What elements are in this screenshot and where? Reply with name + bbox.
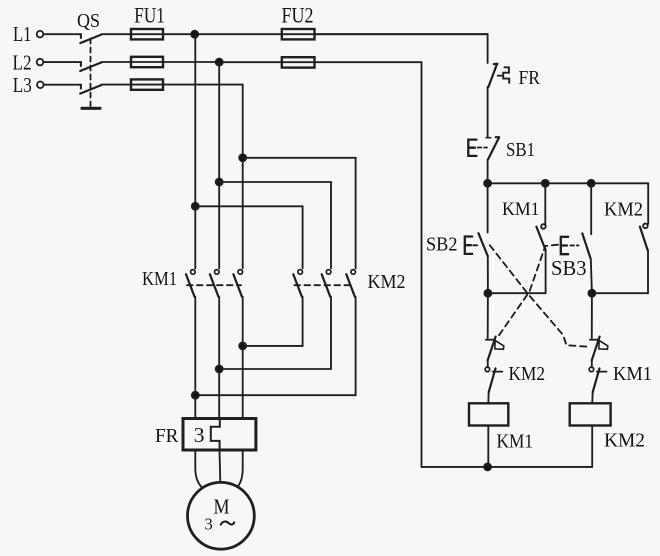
pushbutton SB2 NC contact (interlock): [590, 337, 608, 361]
wire node B horizontal: [488, 292, 546, 294]
svg-text:SB2: SB2: [426, 234, 458, 255]
contactor KM1 NC interlock contact: [589, 367, 606, 392]
svg-text:KM1: KM1: [497, 431, 534, 453]
wire phase2 vertical upper: [218, 62, 220, 268]
pushbutton SB1 (NC stop): [486, 137, 499, 159]
wire phase2 vertical lower: [218, 297, 220, 419]
wire control bus top: [488, 182, 649, 184]
svg-text:KM2: KM2: [368, 271, 406, 293]
wire bottom bus: [422, 466, 593, 468]
contactor KM2 NC interlock contact: [485, 367, 502, 392]
junction phase2 to KM2 col2: [216, 179, 223, 186]
FR contact linkage dash: [498, 75, 502, 77]
contactor KM2 main contact 1: [293, 270, 302, 297]
wire L3 terminal to QS: [44, 84, 81, 86]
svg-text:L1: L1: [13, 22, 32, 46]
svg-text:L3: L3: [13, 73, 32, 97]
pushbutton SB3 NC contact (interlock): [486, 337, 504, 361]
SB2 actuator dash: [473, 244, 477, 246]
FR heater element symbol: [211, 420, 220, 448]
wire KM2 col2 lower: [219, 297, 331, 369]
SB3 actuator E: [561, 237, 568, 254]
label tilde motor: [220, 521, 234, 525]
wire to KM2 coil: [591, 392, 594, 403]
switch QS pole 1: [80, 34, 101, 43]
wire FU2 row1 to FR contact: [315, 34, 488, 63]
node L3 terminal: [37, 82, 44, 89]
junction bottom bus: [484, 463, 491, 470]
svg-text:QS: QS: [77, 10, 100, 32]
wire phase1 vertical upper: [194, 34, 196, 268]
pushbutton SB3 (NO start rev): [582, 233, 590, 258]
wire node C horizontal: [592, 292, 648, 294]
relay contact FR (NC): [489, 64, 498, 87]
wire L2 to return branch: [219, 61, 421, 63]
wire QS to FU1 row3: [102, 84, 243, 86]
motor M circle: [188, 482, 255, 549]
wire KM2 coil to bottom bus: [591, 426, 593, 467]
wire to KM1 coil: [487, 392, 489, 403]
wire QS to FU1 row2: [102, 61, 220, 63]
wire SB1 to bus: [487, 160, 489, 184]
wire SB3 to node C: [591, 258, 592, 293]
SB1 actuator dash: [478, 147, 487, 149]
fuse FU2 element 2: [282, 57, 315, 67]
junction bus middle: [542, 180, 549, 187]
wire bus to SB3: [590, 183, 592, 234]
fuse FU2 element 1: [282, 29, 315, 39]
junction bus left: [484, 180, 491, 187]
svg-text:FR: FR: [155, 425, 179, 447]
wire KM1 coil to bottom bus: [487, 426, 489, 467]
wire phase2 branch to KM2 col2: [219, 182, 331, 268]
pushbutton SB2 (NO start fwd): [479, 233, 488, 256]
contactor KM1 aux NO (self hold): [536, 183, 545, 293]
svg-text:KM2: KM2: [604, 199, 643, 221]
junction node B: [484, 290, 491, 297]
junction phase2 top: [216, 59, 223, 66]
wire control return to FU2 row2: [421, 62, 423, 467]
junction phase1 from KM2 col3: [192, 392, 199, 399]
svg-text:3: 3: [205, 515, 213, 534]
wire QS to FU1 row1: [102, 33, 195, 35]
wire phase3 vertical upper: [242, 85, 244, 269]
wire phase1 vertical lower: [194, 297, 196, 419]
switch QS linkage bar: [82, 107, 100, 110]
wire KM2 col3 lower: [195, 297, 355, 395]
wire SB2 to node B: [487, 256, 489, 293]
svg-text:L2: L2: [13, 50, 32, 74]
svg-text:FU1: FU1: [134, 2, 165, 27]
svg-text:KM2: KM2: [509, 363, 546, 385]
KM1 main linkage dashed: [187, 284, 241, 286]
fuse FU1 element 2: [131, 57, 163, 67]
junction phase3 from KM2 col1: [239, 342, 246, 349]
wire L1 to control branch: [195, 33, 488, 35]
fuse FU1 element 3: [131, 79, 163, 89]
SB1 actuator E: [468, 140, 476, 156]
wire bus to SB2: [487, 183, 489, 232]
KM2 main linkage dashed: [295, 284, 352, 286]
junction node C: [588, 290, 595, 297]
svg-text:KM1: KM1: [502, 199, 540, 220]
coil KM1: [469, 403, 508, 425]
svg-text:FR: FR: [519, 67, 541, 89]
node L1 terminal: [37, 31, 44, 38]
fuse FU1 element 1: [131, 29, 163, 39]
junction phase1 to KM2 col1: [192, 203, 199, 210]
interlock dashed SB3 to left NC: [498, 245, 558, 337]
contactor KM2 main contact 3: [346, 270, 355, 297]
svg-text:SB1: SB1: [506, 139, 535, 161]
motor lead right: [238, 450, 243, 487]
wire node B to SB3-NC: [487, 293, 489, 338]
contactor KM2 aux NO (self hold): [640, 183, 648, 293]
SB3 actuator dash right: [571, 244, 579, 246]
wire KM2 col1 lower: [243, 297, 303, 346]
svg-text:3: 3: [194, 423, 205, 447]
wire L2 terminal to QS: [44, 61, 81, 63]
node L2 terminal: [37, 59, 44, 66]
wire phase1 branch to KM2 col1: [195, 206, 302, 268]
wire to KM1 interlock contact: [591, 360, 593, 367]
svg-text:SB3: SB3: [551, 256, 587, 280]
motor lead middle: [219, 450, 222, 483]
contactor KM1 main contact 3: [233, 270, 242, 297]
wire to KM2 interlock contact: [487, 360, 489, 367]
wire L1 terminal to QS: [44, 33, 81, 35]
contactor KM1 main contact 1: [186, 270, 195, 297]
interlock dashed SB2 to right NC: [490, 245, 588, 346]
switch QS pole 3: [80, 85, 101, 94]
coil KM2: [570, 403, 611, 425]
junction phase3 to KM2 col3: [239, 154, 246, 161]
svg-text:KM2: KM2: [604, 429, 645, 451]
contactor KM1 main contact 2: [210, 270, 219, 297]
svg-text:KM1: KM1: [142, 268, 177, 290]
svg-text:M: M: [214, 495, 230, 519]
contactor KM2 main contact 2: [322, 270, 331, 297]
motor lead left: [195, 450, 202, 488]
svg-text:FU2: FU2: [282, 2, 314, 27]
thermal relay FR heater box: [183, 419, 256, 451]
junction phase2 from KM2 col2: [216, 366, 223, 373]
junction bus right: [588, 180, 595, 187]
svg-text:KM1: KM1: [613, 363, 652, 385]
SB2 actuator E: [465, 237, 472, 254]
wire FR to SB1: [487, 87, 489, 138]
switch QS pole 2: [80, 62, 101, 71]
wire node C to SB2-NC: [591, 293, 593, 338]
wire phase3 vertical lower: [242, 297, 244, 419]
wire phase3 branch to KM2 col3: [243, 158, 356, 268]
FR trip function symbol: [503, 67, 509, 83]
junction phase1 top: [191, 31, 198, 38]
switch QS linkage dashed: [90, 39, 92, 107]
